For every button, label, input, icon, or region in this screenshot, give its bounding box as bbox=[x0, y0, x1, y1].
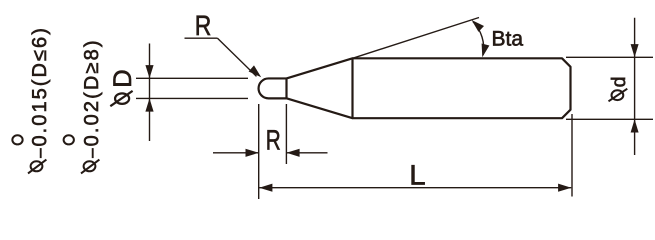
svg-text:R: R bbox=[195, 10, 212, 41]
svg-text:0.02(D≥8): 0.02(D≥8) bbox=[81, 38, 103, 146]
svg-text:Bta: Bta bbox=[492, 27, 524, 50]
svg-text:0.015(D≤6): 0.015(D≤6) bbox=[29, 26, 51, 146]
svg-text:L: L bbox=[409, 160, 425, 191]
svg-text:d: d bbox=[608, 77, 630, 88]
svg-text:D: D bbox=[109, 69, 137, 87]
svg-text:R: R bbox=[266, 124, 281, 155]
